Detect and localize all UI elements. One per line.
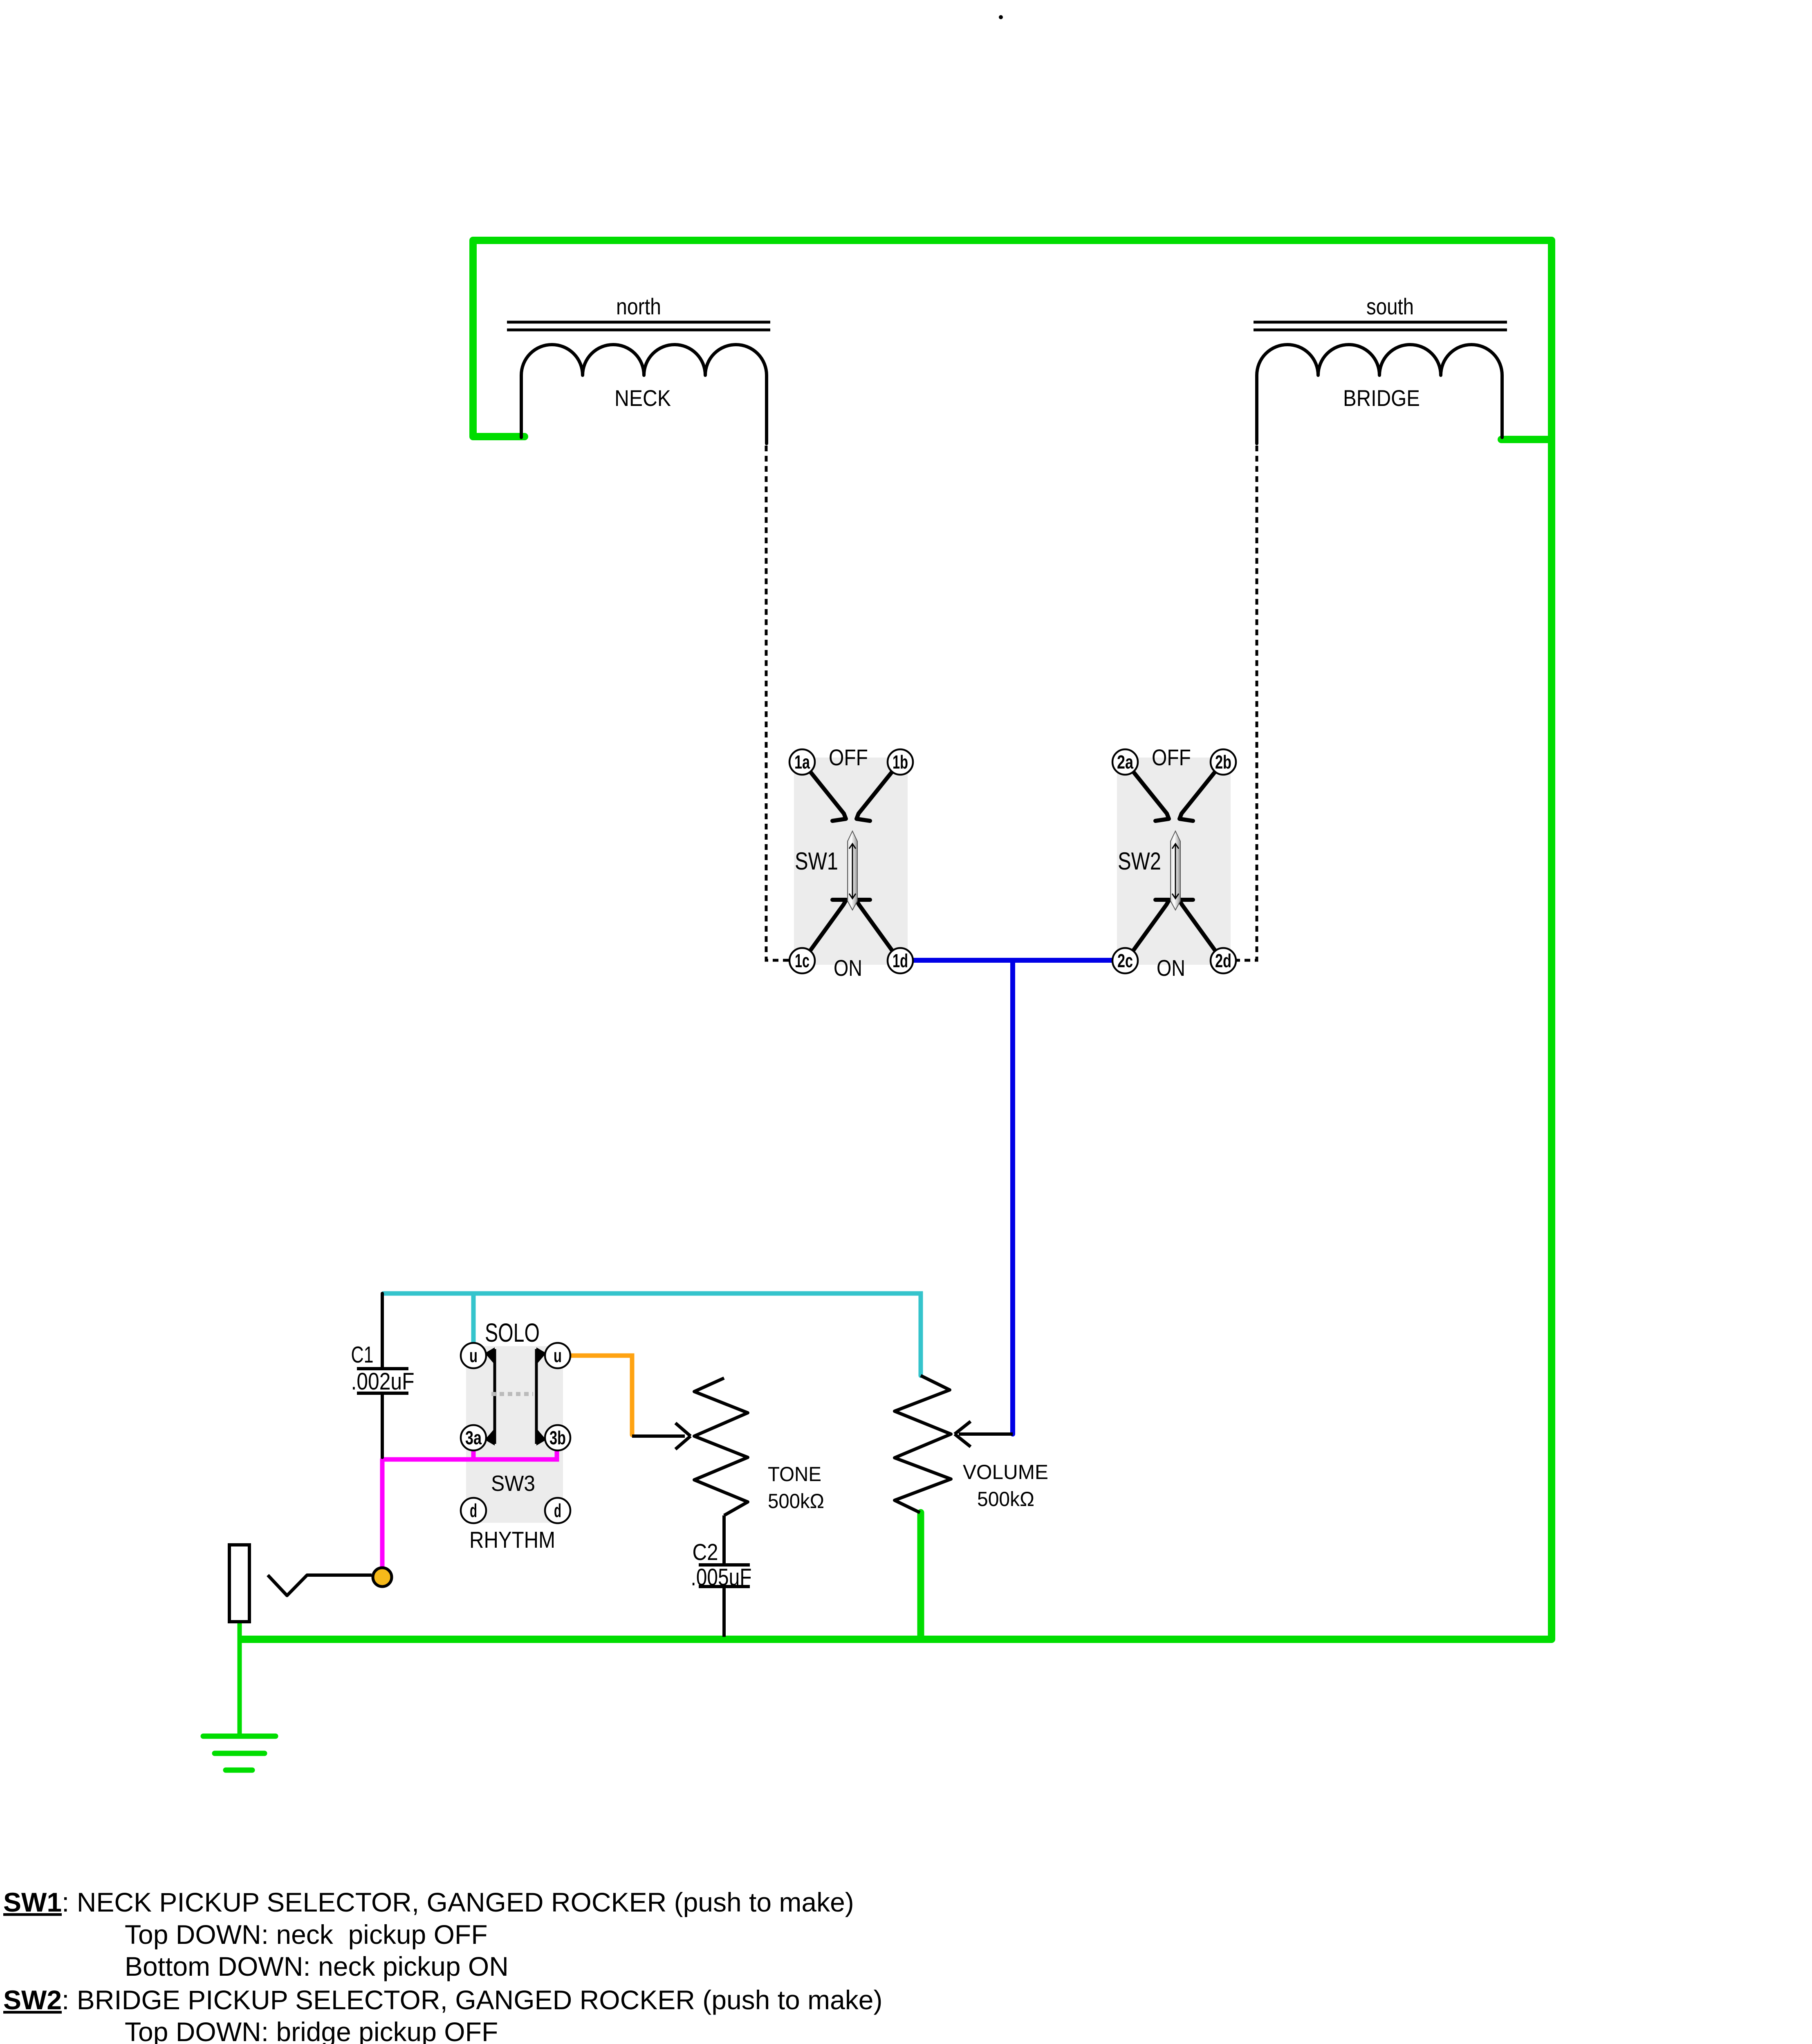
svg-text:2c: 2c — [1117, 950, 1133, 971]
svg-text:u: u — [554, 1345, 562, 1366]
svg-text:TONE: TONE — [768, 1463, 821, 1486]
svg-text:BRIDGE: BRIDGE — [1343, 385, 1420, 411]
svg-text:C1: C1 — [351, 1342, 374, 1368]
svg-text:north: north — [616, 294, 661, 319]
svg-text:3b: 3b — [549, 1427, 566, 1448]
svg-text:RHYTHM: RHYTHM — [469, 1527, 555, 1553]
svg-text:NECK: NECK — [614, 385, 671, 411]
svg-text:.005uF: .005uF — [691, 1564, 752, 1591]
svg-text:C2: C2 — [693, 1539, 718, 1565]
svg-text:SOLO: SOLO — [485, 1318, 540, 1347]
svg-text:500kΩ: 500kΩ — [977, 1488, 1034, 1511]
svg-text:u: u — [469, 1345, 478, 1366]
svg-text:OFF: OFF — [829, 744, 868, 770]
svg-text:1b: 1b — [893, 751, 908, 773]
svg-text:2b: 2b — [1215, 751, 1231, 773]
svg-text:Top DOWN: bridge pickup OFF: Top DOWN: bridge pickup OFF — [125, 2017, 498, 2044]
svg-text:1c: 1c — [795, 950, 810, 971]
svg-text:.002uF: .002uF — [351, 1368, 415, 1395]
svg-text:ON: ON — [1157, 955, 1185, 981]
svg-text:2a: 2a — [1117, 751, 1133, 773]
svg-text:SW2: BRIDGE PICKUP SELECTOR, G: SW2: BRIDGE PICKUP SELECTOR, GANGED ROCK… — [3, 1985, 882, 2015]
svg-text:d: d — [554, 1500, 561, 1521]
svg-text:Bottom DOWN: neck pickup ON: Bottom DOWN: neck pickup ON — [125, 1951, 509, 1981]
svg-text:1a: 1a — [794, 751, 810, 773]
svg-text:south: south — [1366, 294, 1414, 319]
svg-text:VOLUME: VOLUME — [963, 1461, 1048, 1484]
svg-text:500kΩ: 500kΩ — [768, 1490, 824, 1513]
svg-text:SW3: SW3 — [491, 1471, 535, 1496]
svg-text:d: d — [470, 1500, 477, 1521]
svg-text:OFF: OFF — [1152, 744, 1191, 770]
svg-text:ON: ON — [834, 955, 862, 981]
svg-text:2d: 2d — [1215, 950, 1231, 971]
svg-text:3a: 3a — [465, 1427, 482, 1448]
svg-text:SW1: SW1 — [795, 847, 838, 875]
svg-text:SW2: SW2 — [1118, 847, 1161, 875]
svg-text:SW1: NECK PICKUP SELECTOR, GAN: SW1: NECK PICKUP SELECTOR, GANGED ROCKER… — [3, 1887, 854, 1917]
svg-text:1d: 1d — [893, 950, 908, 971]
svg-text:Top DOWN: neck pickup OFF: Top DOWN: neck pickup OFF — [125, 1919, 488, 1950]
